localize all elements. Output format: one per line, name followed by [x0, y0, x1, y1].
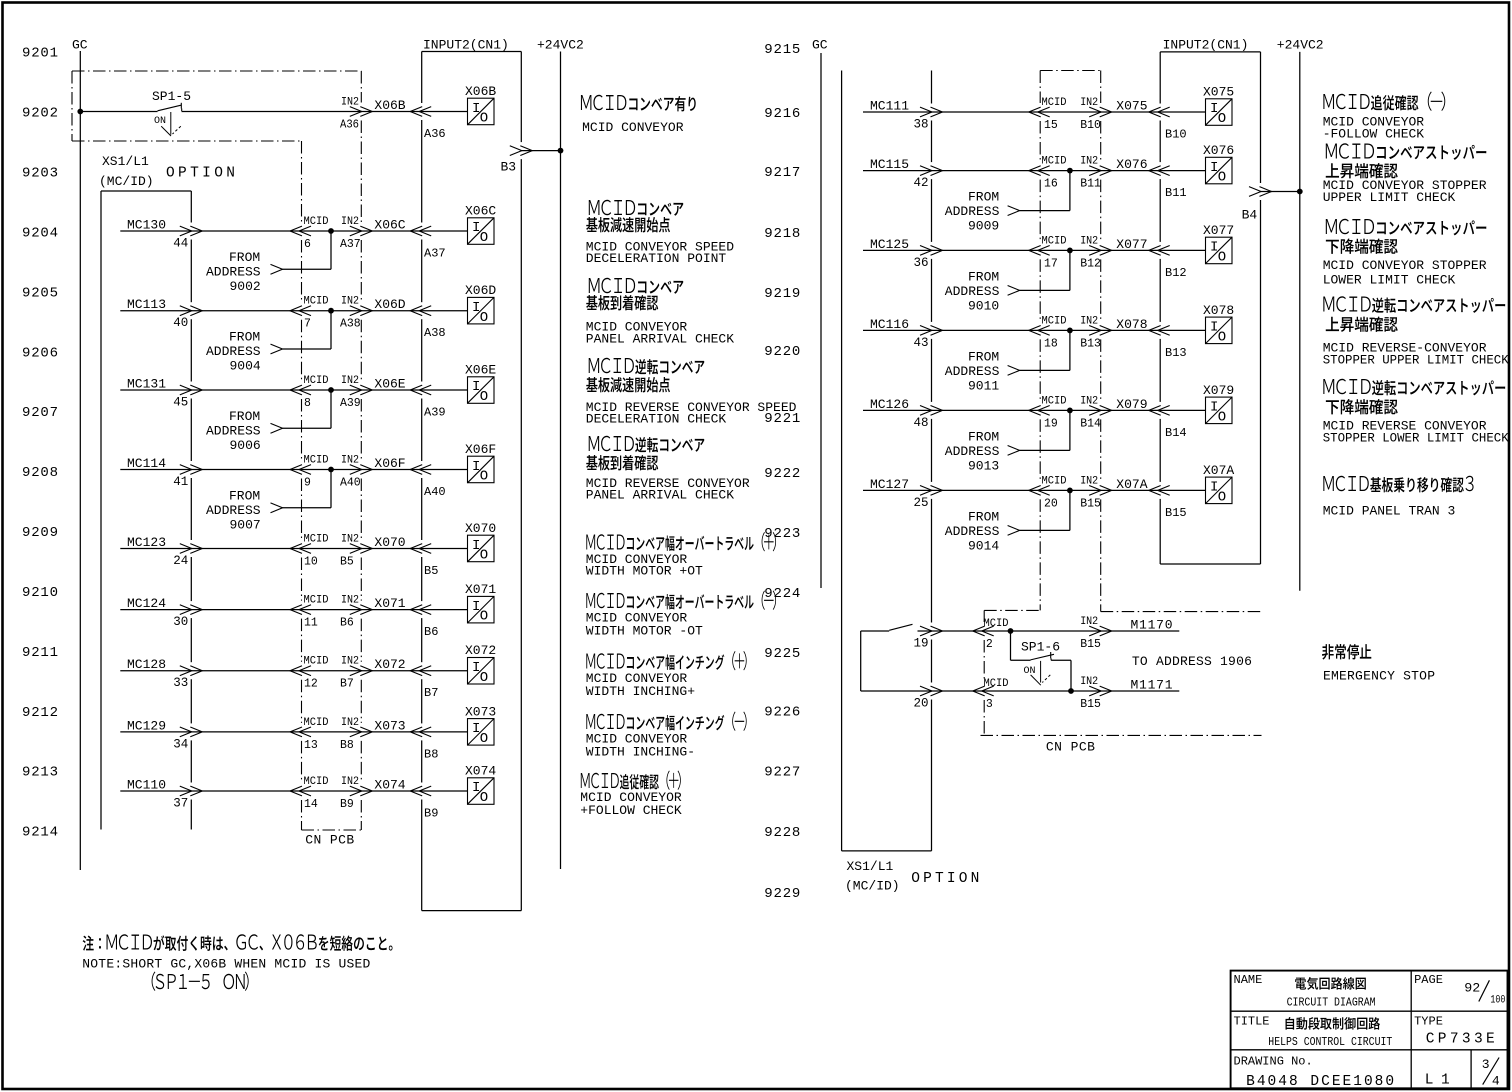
svg-text:9227: 9227	[764, 765, 800, 781]
svg-text:9220: 9220	[764, 344, 800, 360]
svg-text:INPUT2(CN1): INPUT2(CN1)	[1163, 38, 1249, 53]
svg-text:B15: B15	[1080, 638, 1101, 651]
svg-text:9014: 9014	[968, 538, 999, 553]
svg-text:B5: B5	[424, 564, 438, 578]
svg-text:9006: 9006	[230, 438, 261, 453]
svg-text:24: 24	[173, 554, 188, 568]
svg-text:WIDTH MOTOR +OT: WIDTH MOTOR +OT	[586, 564, 703, 579]
svg-text:O: O	[480, 310, 488, 326]
svg-text:XS1/L1: XS1/L1	[102, 154, 149, 169]
svg-text:MC125: MC125	[870, 237, 909, 252]
svg-text:INPUT2(CN1): INPUT2(CN1)	[423, 38, 509, 53]
svg-text:O: O	[480, 111, 488, 127]
svg-text:B8: B8	[424, 747, 438, 761]
svg-text:3: 3	[986, 698, 993, 711]
svg-text:42: 42	[914, 176, 929, 190]
svg-text:A36: A36	[424, 127, 446, 141]
svg-text:M1170: M1170	[1131, 618, 1173, 633]
svg-text:15: 15	[1044, 119, 1058, 132]
svg-text:GC: GC	[72, 38, 88, 53]
svg-text:X06E: X06E	[465, 363, 496, 378]
svg-text:(MC/ID): (MC/ID)	[845, 879, 900, 894]
svg-text:38: 38	[914, 118, 929, 132]
svg-text:B7: B7	[424, 686, 438, 700]
svg-text:+24VC2: +24VC2	[537, 38, 584, 53]
svg-text:O: O	[1218, 170, 1226, 186]
svg-text:MCID: MCID	[304, 776, 329, 788]
svg-text:O: O	[480, 389, 488, 405]
svg-text:X077: X077	[1203, 223, 1234, 238]
svg-text:WIDTH MOTOR -OT: WIDTH MOTOR -OT	[586, 624, 703, 639]
svg-text:O: O	[480, 469, 488, 485]
svg-text:STOPPER UPPER LIMIT CHECK: STOPPER UPPER LIMIT CHECK	[1323, 353, 1509, 368]
svg-text:13: 13	[304, 739, 318, 752]
svg-text:FROM: FROM	[968, 349, 999, 364]
svg-text:B15: B15	[1165, 506, 1187, 520]
svg-text:MC126: MC126	[870, 397, 909, 412]
svg-text:9226: 9226	[764, 705, 800, 721]
svg-text:B9: B9	[340, 798, 354, 811]
svg-text:O: O	[480, 790, 488, 806]
svg-text:9206: 9206	[22, 345, 58, 361]
svg-text:ADDRESS: ADDRESS	[206, 424, 261, 439]
svg-text:34: 34	[173, 737, 188, 751]
svg-text:92: 92	[1464, 981, 1480, 996]
svg-text:MCID: MCID	[304, 455, 329, 467]
svg-text:A38: A38	[340, 318, 361, 331]
svg-text:9: 9	[304, 477, 311, 490]
svg-text:9228: 9228	[764, 825, 800, 841]
svg-text:X075: X075	[1203, 85, 1234, 100]
svg-text:MC111: MC111	[870, 99, 909, 114]
svg-text:9205: 9205	[22, 285, 58, 301]
svg-text:O: O	[480, 230, 488, 246]
svg-text:MC129: MC129	[127, 718, 166, 733]
svg-text:DECELERATION POINT: DECELERATION POINT	[586, 251, 727, 266]
svg-text:9013: 9013	[968, 458, 999, 473]
svg-text:FROM: FROM	[968, 509, 999, 524]
svg-text:O: O	[1218, 111, 1226, 127]
svg-text:XS1/L1: XS1/L1	[847, 859, 894, 874]
svg-text:PANEL ARRIVAL CHECK: PANEL ARRIVAL CHECK	[586, 488, 734, 503]
svg-text:FROM: FROM	[229, 409, 260, 424]
svg-text:ADDRESS: ADDRESS	[206, 344, 261, 359]
svg-text:A38: A38	[424, 326, 446, 340]
svg-text:X06C: X06C	[465, 204, 496, 219]
svg-text:STOPPER LOWER LIMIT CHECK: STOPPER LOWER LIMIT CHECK	[1323, 431, 1509, 446]
svg-text:PANEL ARRIVAL CHECK: PANEL ARRIVAL CHECK	[586, 332, 734, 347]
svg-text:X06D: X06D	[465, 283, 496, 298]
svg-text:ADDRESS: ADDRESS	[945, 284, 1000, 299]
svg-text:X075: X075	[1116, 99, 1147, 114]
svg-text:41: 41	[173, 475, 188, 489]
svg-text:9222: 9222	[764, 466, 800, 482]
svg-text:(MC/ID): (MC/ID)	[99, 174, 154, 189]
svg-text:9202: 9202	[22, 106, 58, 122]
svg-text:B12: B12	[1165, 266, 1187, 280]
svg-text:FROM: FROM	[968, 429, 999, 444]
svg-text:A37: A37	[424, 247, 446, 261]
svg-text:MCID PANEL TRAN 3: MCID PANEL TRAN 3	[1323, 504, 1456, 519]
svg-text:O: O	[480, 731, 488, 747]
svg-text:8: 8	[304, 397, 311, 410]
svg-text:B3: B3	[501, 160, 517, 175]
svg-text:19: 19	[1044, 417, 1058, 430]
svg-text:FROM: FROM	[229, 330, 260, 345]
svg-text:B11: B11	[1080, 178, 1101, 191]
svg-text:EMERGENCY STOP: EMERGENCY STOP	[1323, 669, 1435, 684]
svg-text:X072: X072	[465, 643, 496, 658]
svg-text:B10: B10	[1080, 119, 1101, 132]
svg-text:O: O	[1218, 489, 1226, 505]
svg-text:MCID: MCID	[1042, 395, 1067, 407]
svg-text:X071: X071	[374, 596, 405, 611]
svg-text:O: O	[480, 548, 488, 564]
svg-text:9212: 9212	[22, 705, 58, 721]
svg-text:9011: 9011	[968, 378, 999, 393]
svg-text:DRAWING No.: DRAWING No.	[1234, 1055, 1313, 1069]
svg-text:9213: 9213	[22, 765, 58, 781]
svg-text:9219: 9219	[764, 286, 800, 302]
svg-text:FROM: FROM	[229, 250, 260, 265]
svg-text:X076: X076	[1203, 143, 1234, 158]
svg-text:X072: X072	[374, 657, 405, 672]
svg-text:MCID: MCID	[984, 678, 1009, 690]
svg-text:X06D: X06D	[374, 297, 405, 312]
svg-text:16: 16	[1044, 178, 1058, 191]
svg-text:B5: B5	[340, 556, 354, 569]
svg-text:A36: A36	[340, 119, 359, 132]
svg-text:45: 45	[173, 396, 188, 410]
svg-text:X078: X078	[1116, 317, 1147, 332]
svg-text:FROM: FROM	[968, 190, 999, 205]
svg-text:MC115: MC115	[870, 157, 909, 172]
svg-text:WIDTH INCHING-: WIDTH INCHING-	[586, 745, 695, 760]
svg-text:9203: 9203	[22, 166, 58, 182]
svg-text:UPPER LIMIT CHECK: UPPER LIMIT CHECK	[1323, 190, 1456, 205]
svg-text:X07A: X07A	[1203, 463, 1234, 478]
svg-text:B6: B6	[424, 625, 438, 639]
svg-text:X06B: X06B	[374, 98, 405, 113]
svg-text:MCID: MCID	[304, 656, 329, 668]
svg-text:B8: B8	[340, 739, 354, 752]
svg-text:FROM: FROM	[968, 269, 999, 284]
svg-text:MCID: MCID	[304, 717, 329, 729]
svg-text:O: O	[1218, 249, 1226, 265]
svg-text:X070: X070	[465, 521, 496, 536]
svg-text:9002: 9002	[230, 279, 261, 294]
svg-text:A40: A40	[340, 477, 361, 490]
svg-text:B6: B6	[340, 617, 354, 630]
svg-text:M1171: M1171	[1131, 678, 1173, 693]
svg-text:19: 19	[914, 637, 929, 651]
svg-text:9204: 9204	[22, 226, 58, 242]
svg-text:TYPE: TYPE	[1414, 1015, 1443, 1029]
svg-text:48: 48	[914, 416, 929, 430]
svg-text:X071: X071	[465, 582, 496, 597]
svg-text:ADDRESS: ADDRESS	[945, 204, 1000, 219]
svg-text:ON: ON	[154, 116, 166, 127]
svg-text:9201: 9201	[22, 46, 58, 62]
svg-text:X06C: X06C	[374, 218, 405, 233]
svg-text:X070: X070	[374, 535, 405, 550]
svg-text:100: 100	[1490, 995, 1505, 1007]
svg-text:9010: 9010	[968, 298, 999, 313]
svg-text:MCID CONVEYOR STOPPER: MCID CONVEYOR STOPPER	[1323, 258, 1487, 273]
svg-text:9216: 9216	[764, 106, 800, 122]
svg-text:O: O	[1218, 409, 1226, 425]
svg-text:MCID: MCID	[1042, 156, 1067, 168]
svg-text:X073: X073	[465, 704, 496, 719]
svg-text:X077: X077	[1116, 237, 1147, 252]
svg-text:9207: 9207	[22, 405, 58, 421]
svg-text:-FOLLOW CHECK: -FOLLOW CHECK	[1323, 127, 1425, 142]
svg-text:O: O	[1218, 329, 1226, 345]
svg-text:ADDRESS: ADDRESS	[206, 503, 261, 518]
svg-text:MC128: MC128	[127, 657, 166, 672]
svg-text:9210: 9210	[22, 585, 58, 601]
svg-text:MCID: MCID	[1042, 235, 1067, 247]
svg-text:MCID: MCID	[1042, 475, 1067, 487]
svg-text:44: 44	[173, 237, 188, 251]
svg-text:10: 10	[304, 556, 318, 569]
svg-text:MC127: MC127	[870, 477, 909, 492]
svg-text:A40: A40	[424, 485, 446, 499]
svg-text:9218: 9218	[764, 226, 800, 242]
svg-text:X079: X079	[1203, 383, 1234, 398]
svg-text:MC110: MC110	[127, 778, 166, 793]
svg-text:9211: 9211	[22, 645, 58, 661]
svg-text:X06F: X06F	[465, 442, 496, 457]
svg-text:B7: B7	[340, 678, 354, 691]
svg-text:20: 20	[914, 697, 929, 711]
svg-text:9229: 9229	[764, 886, 800, 902]
svg-text:GC: GC	[812, 38, 828, 53]
svg-text:CN PCB: CN PCB	[305, 833, 354, 848]
svg-text:MCID: MCID	[1042, 97, 1067, 109]
svg-text:MCID: MCID	[304, 216, 329, 228]
svg-text:MC116: MC116	[870, 317, 909, 332]
svg-text:X079: X079	[1116, 397, 1147, 412]
svg-text:MC131: MC131	[127, 377, 166, 392]
svg-text:B13: B13	[1080, 337, 1101, 350]
svg-text:SP1-6: SP1-6	[1021, 640, 1060, 655]
svg-text:MC124: MC124	[127, 596, 166, 611]
svg-text:3: 3	[1482, 1057, 1490, 1072]
svg-text:33: 33	[173, 676, 188, 690]
svg-text:25: 25	[914, 496, 929, 510]
svg-text:X074: X074	[374, 778, 405, 793]
svg-text:B13: B13	[1165, 346, 1187, 360]
svg-text:ADDRESS: ADDRESS	[945, 524, 1000, 539]
svg-text:TITLE: TITLE	[1234, 1015, 1270, 1029]
svg-text:43: 43	[914, 336, 929, 350]
svg-text:9004: 9004	[230, 359, 261, 374]
svg-text:O: O	[480, 670, 488, 686]
svg-text:B15: B15	[1080, 698, 1101, 711]
svg-text:36: 36	[914, 256, 929, 270]
svg-text:ADDRESS: ADDRESS	[206, 265, 261, 280]
svg-text:A39: A39	[340, 397, 361, 410]
svg-text:4: 4	[1492, 1074, 1500, 1089]
svg-text:MCID: MCID	[304, 375, 329, 387]
svg-text:B14: B14	[1080, 417, 1101, 430]
svg-text:HELPS CONTROL CIRCUIT: HELPS CONTROL CIRCUIT	[1268, 1035, 1392, 1049]
svg-text:MCID: MCID	[304, 595, 329, 607]
svg-text:B14: B14	[1165, 426, 1187, 440]
svg-text:X06F: X06F	[374, 456, 405, 471]
svg-text:12: 12	[304, 678, 318, 691]
svg-text:B12: B12	[1080, 257, 1101, 270]
svg-text:9223: 9223	[764, 526, 800, 542]
svg-text:CN PCB: CN PCB	[1046, 740, 1095, 755]
svg-text:9007: 9007	[230, 518, 261, 533]
svg-text:X074: X074	[465, 764, 496, 779]
svg-text:MCID: MCID	[304, 534, 329, 546]
svg-text:B9: B9	[424, 807, 438, 821]
svg-text:B15: B15	[1080, 497, 1101, 510]
svg-text:30: 30	[173, 615, 188, 629]
svg-text:2: 2	[986, 638, 993, 651]
svg-text:X073: X073	[374, 718, 405, 733]
svg-text:MCID CONVEYOR: MCID CONVEYOR	[582, 120, 684, 135]
svg-text:14: 14	[304, 798, 318, 811]
svg-text:X06B: X06B	[465, 84, 496, 99]
svg-text:LOWER LIMIT CHECK: LOWER LIMIT CHECK	[1323, 273, 1456, 288]
svg-text:9208: 9208	[22, 465, 58, 481]
svg-text:17: 17	[1044, 257, 1058, 270]
svg-text:B11: B11	[1165, 186, 1187, 200]
svg-text:9209: 9209	[22, 525, 58, 541]
svg-text:+FOLLOW CHECK: +FOLLOW CHECK	[580, 803, 682, 818]
svg-text:CIRCUIT DIAGRAM: CIRCUIT DIAGRAM	[1287, 996, 1376, 1010]
svg-text:WIDTH INCHING+: WIDTH INCHING+	[586, 684, 695, 699]
svg-text:DECELERATION CHECK: DECELERATION CHECK	[586, 412, 727, 427]
svg-text:11: 11	[304, 617, 318, 630]
svg-text:MCID: MCID	[984, 618, 1009, 630]
svg-text:MCID: MCID	[304, 296, 329, 308]
svg-text:SP1-5: SP1-5	[152, 89, 191, 104]
svg-text:TO ADDRESS 1906: TO ADDRESS 1906	[1132, 654, 1252, 669]
svg-text:40: 40	[173, 316, 188, 330]
svg-text:9217: 9217	[764, 165, 800, 181]
svg-text:+24VC2: +24VC2	[1277, 38, 1324, 53]
svg-text:NAME: NAME	[1234, 973, 1263, 987]
svg-text:X078: X078	[1203, 303, 1234, 318]
svg-text:9214: 9214	[22, 825, 58, 841]
svg-text:FROM: FROM	[229, 489, 260, 504]
svg-text:X07A: X07A	[1116, 477, 1147, 492]
svg-text:B4: B4	[1242, 208, 1258, 223]
svg-text:MC130: MC130	[127, 218, 166, 233]
svg-text:NOTE:SHORT GC,X06B WHEN MCID I: NOTE:SHORT GC,X06B WHEN MCID IS USED	[82, 957, 370, 972]
svg-text:9215: 9215	[764, 42, 800, 58]
svg-text:PAGE: PAGE	[1414, 973, 1443, 987]
svg-text:B10: B10	[1165, 128, 1187, 142]
svg-text:ON: ON	[1024, 666, 1036, 677]
svg-text:ADDRESS: ADDRESS	[945, 444, 1000, 459]
svg-text:18: 18	[1044, 337, 1058, 350]
svg-text:MC123: MC123	[127, 535, 166, 550]
svg-text:9224: 9224	[764, 586, 800, 602]
svg-text:MCID: MCID	[1042, 315, 1067, 327]
svg-text:O: O	[480, 609, 488, 625]
svg-text:A39: A39	[424, 406, 446, 420]
svg-text:MC113: MC113	[127, 297, 166, 312]
svg-text:A37: A37	[340, 238, 361, 251]
svg-text:MC114: MC114	[127, 456, 166, 471]
svg-text:9009: 9009	[968, 219, 999, 234]
svg-text:6: 6	[304, 238, 311, 251]
svg-text:20: 20	[1044, 497, 1058, 510]
svg-text:X076: X076	[1116, 157, 1147, 172]
svg-text:37: 37	[173, 797, 188, 811]
svg-text:X06E: X06E	[374, 377, 405, 392]
svg-text:7: 7	[304, 318, 311, 331]
svg-text:ADDRESS: ADDRESS	[945, 364, 1000, 379]
svg-text:9225: 9225	[764, 646, 800, 662]
